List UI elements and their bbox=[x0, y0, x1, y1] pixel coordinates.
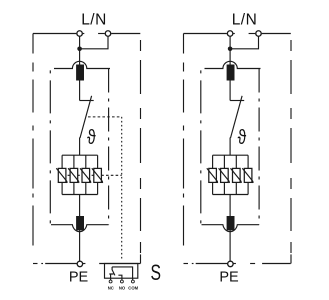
enclosure bottom edge dot bbox=[192, 263, 194, 265]
varistor branch wires (bottom) bbox=[62, 182, 98, 194]
varistor RV4 arrow bbox=[92, 168, 103, 183]
varistor branch wires (top) bbox=[62, 155, 98, 168]
disconnector fuse F1 (top, black) bbox=[227, 65, 235, 81]
varistor RV2 arrow bbox=[68, 168, 79, 183]
varistor RV3 bbox=[233, 168, 241, 182]
wire: bus to lower fuse bbox=[229, 195, 231, 217]
wire: segment into N terminal bbox=[249, 33, 256, 35]
varistor RV1 bbox=[209, 168, 217, 182]
wire: L terminal down through junction to disconnector bbox=[79, 36, 81, 64]
wire: top-left feed to L terminal bbox=[184, 33, 227, 35]
wire: segment into N terminal bbox=[98, 33, 105, 35]
varistor RV3 arrow bbox=[231, 168, 242, 183]
enclosure outer box bottom-right corner bbox=[140, 254, 142, 263]
enclosure bottom edge left dash bbox=[184, 263, 189, 265]
svg-text:NO: NO bbox=[119, 285, 126, 290]
thermal switch blade bbox=[80, 96, 92, 138]
enclosure bottom edge dot bbox=[41, 263, 43, 265]
varistor RV2 bbox=[70, 168, 78, 182]
wire: PE stub right bbox=[83, 263, 86, 265]
varistor RV3 arrow bbox=[80, 168, 91, 183]
terminal NO bbox=[120, 280, 123, 283]
svg-text:PE: PE bbox=[69, 269, 89, 285]
wire: PE feed line bbox=[196, 263, 228, 265]
varistor RV2 arrow bbox=[219, 168, 230, 183]
varistor RV1 arrow bbox=[207, 168, 218, 183]
terminal COM bbox=[131, 280, 134, 283]
wire: switch to varistor bus bbox=[229, 138, 231, 156]
signal dotted vertical to remote contact bbox=[121, 117, 123, 259]
enclosure bottom edge dash segment bbox=[250, 263, 255, 265]
module inner box top edge with disconnector arc bbox=[205, 61, 261, 68]
wire: lower fuse to PE terminal bbox=[229, 230, 231, 261]
module inner box left edge (dash-dot) bbox=[200, 70, 202, 225]
enclosure bottom edge right segment bbox=[262, 263, 291, 265]
svg-text:ϑ: ϑ bbox=[87, 126, 96, 149]
varistor bottom bus bbox=[213, 194, 249, 196]
signal dotted link from varistor bbox=[58, 174, 122, 176]
contact blade bbox=[112, 267, 115, 276]
wire: N terminal to top-right corner bbox=[111, 33, 140, 35]
node: junction dot bbox=[228, 47, 233, 52]
varistor bottom bus bbox=[62, 194, 98, 196]
terminal L (left circle) bbox=[227, 31, 233, 37]
varistor top bus bbox=[62, 154, 98, 156]
svg-text:PE: PE bbox=[219, 269, 239, 285]
disconnector fuse F2 (bottom, black) bbox=[76, 216, 84, 230]
varistor RV2 bbox=[221, 168, 229, 182]
varistor RV4 bbox=[94, 168, 102, 182]
enclosure outer box left edge (dash-dot) bbox=[32, 34, 34, 250]
svg-text:COM: COM bbox=[128, 285, 138, 290]
remote signal contact box bbox=[105, 264, 138, 279]
terminal PE bbox=[77, 261, 83, 267]
wire: stub right of L terminal bbox=[83, 33, 85, 35]
varistor RV3 bbox=[82, 168, 90, 182]
varistor top bus bbox=[213, 154, 249, 156]
wire: N terminal to top-right corner bbox=[262, 33, 291, 35]
wire: lower fuse to PE terminal bbox=[79, 230, 81, 261]
wire: junction to N-terminal branch bbox=[80, 36, 108, 49]
thermal switch fixed contact bar bbox=[230, 100, 244, 102]
disconnector fuse F1 (top, black) bbox=[76, 65, 84, 81]
module inner box top edge with disconnector arc bbox=[54, 61, 110, 68]
varistor RV4 bbox=[244, 168, 252, 182]
wire: fuse to thermal switch bbox=[79, 81, 81, 101]
terminal PE bbox=[228, 261, 234, 267]
enclosure outer box left edge (dash-dot) bbox=[183, 34, 185, 250]
module inner box right edge (dash-dot) bbox=[258, 69, 260, 225]
terminal N (right circle) bbox=[105, 31, 111, 37]
module inner box right edge (dash-dot) bbox=[108, 69, 110, 225]
svg-text:L/N: L/N bbox=[232, 12, 258, 29]
wire: bus to lower fuse bbox=[79, 195, 81, 217]
thermal switch fixed contact bar bbox=[80, 100, 94, 102]
wire: switch to varistor bus bbox=[79, 138, 81, 156]
terminal N (right circle) bbox=[256, 31, 262, 37]
wire: junction to N-terminal branch bbox=[230, 36, 258, 49]
signal dotted link from switch bbox=[88, 116, 122, 118]
svg-text:L/N: L/N bbox=[81, 12, 107, 29]
module inner box left edge (dash-dot) bbox=[49, 70, 51, 225]
contact NC stem and anvil bbox=[109, 274, 113, 280]
terminal L (left circle) bbox=[77, 31, 83, 37]
module inner box bottom edge with disconnector arc bbox=[202, 225, 260, 232]
wire: PE feed line bbox=[45, 263, 77, 265]
node: junction dot bbox=[77, 47, 82, 52]
varistor RV1 arrow bbox=[56, 168, 67, 183]
enclosure bottom edge right segment (over S block) bbox=[99, 263, 140, 265]
enclosure bottom edge left dash bbox=[33, 263, 38, 265]
varistor RV4 arrow bbox=[242, 168, 253, 183]
enclosure outer box bottom-right corner bbox=[290, 254, 292, 263]
varistor branch wires (top) bbox=[213, 155, 249, 168]
disconnector fuse F2 (bottom, black) bbox=[227, 216, 235, 230]
terminal NC bbox=[109, 280, 112, 283]
wire: PE stub right bbox=[233, 263, 236, 265]
svg-text:ϑ: ϑ bbox=[238, 126, 247, 149]
wire: L terminal down through junction to disconnector bbox=[229, 36, 231, 64]
contact NO stem bbox=[118, 275, 122, 280]
wire: fuse to thermal switch bbox=[229, 81, 231, 101]
contact COM bar bbox=[112, 267, 133, 280]
svg-text:NC: NC bbox=[108, 285, 114, 290]
svg-text:S: S bbox=[150, 260, 161, 285]
thermal switch blade bbox=[231, 96, 243, 138]
module inner box bottom edge with disconnector arc bbox=[51, 225, 109, 232]
wire: top-left feed to L terminal bbox=[33, 33, 76, 35]
varistor RV1 bbox=[58, 168, 66, 182]
varistor branch wires (bottom) bbox=[213, 182, 249, 194]
enclosure outer box right edge (dash-dot) bbox=[290, 40, 292, 254]
enclosure outer box right edge (dash-dot) bbox=[140, 40, 142, 254]
wire: stub right of L terminal bbox=[233, 33, 235, 35]
